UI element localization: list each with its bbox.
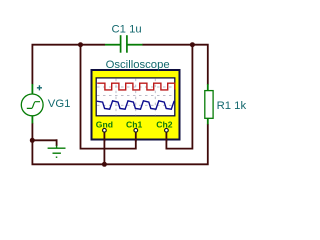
wire: Ch1 loop from node A down and right up to Ch1 terminal xyxy=(81,45,136,149)
svg-text:VG1: VG1 xyxy=(48,98,71,110)
svg-text:Ch1: Ch1 xyxy=(126,120,142,130)
capacitor C1 xyxy=(105,35,142,53)
wire: top rail right of C1 to corner and down to R1 top xyxy=(142,45,208,85)
screen Ch1 red square wave xyxy=(97,83,175,90)
wire: ground branch from junction xyxy=(31,139,56,146)
oscilloscope screen xyxy=(96,78,175,116)
oscilloscope U1 body xyxy=(92,70,180,140)
screen grid dashed lines xyxy=(97,79,175,116)
pin Ch2 terminal circle xyxy=(165,128,169,132)
node junction dot at VG1 bottom xyxy=(30,138,35,143)
wire: Ch2 terminal stub through scope body xyxy=(165,132,167,142)
node A junction dot on top rail xyxy=(78,42,83,47)
wire: Ch2 loop from node B down and left up to Ch2 terminal xyxy=(166,45,192,149)
svg-text:C1 1u: C1 1u xyxy=(112,24,142,36)
wire: VG1 bottom lead down to junction xyxy=(31,123,33,141)
node B junction dot on top rail right xyxy=(190,42,195,47)
wire: left vertical from top rail to VG1 plus top rail to C1 xyxy=(32,45,105,85)
resistor R1 xyxy=(207,84,209,124)
wire: Gnd terminal stub through scope body xyxy=(103,132,105,142)
wire: Gnd terminal drop to bottom bus xyxy=(103,132,105,165)
screen Ch2 blue wave xyxy=(97,101,174,109)
pin Gnd terminal circle xyxy=(103,128,107,132)
ground xyxy=(48,146,66,158)
voltage generator VG1 xyxy=(21,84,43,123)
svg-text:R1 1k: R1 1k xyxy=(217,100,247,112)
svg-text:Ch2: Ch2 xyxy=(156,120,172,130)
svg-text:Oscilloscope: Oscilloscope xyxy=(106,59,170,71)
node junction dot on bottom bus at Gnd drop xyxy=(102,162,107,167)
pin Ch1 terminal circle xyxy=(134,128,138,132)
wire: bottom bus from VG1 junction to R1 bottom xyxy=(32,124,207,164)
wire: Ch1 terminal stub through scope body xyxy=(135,132,137,142)
